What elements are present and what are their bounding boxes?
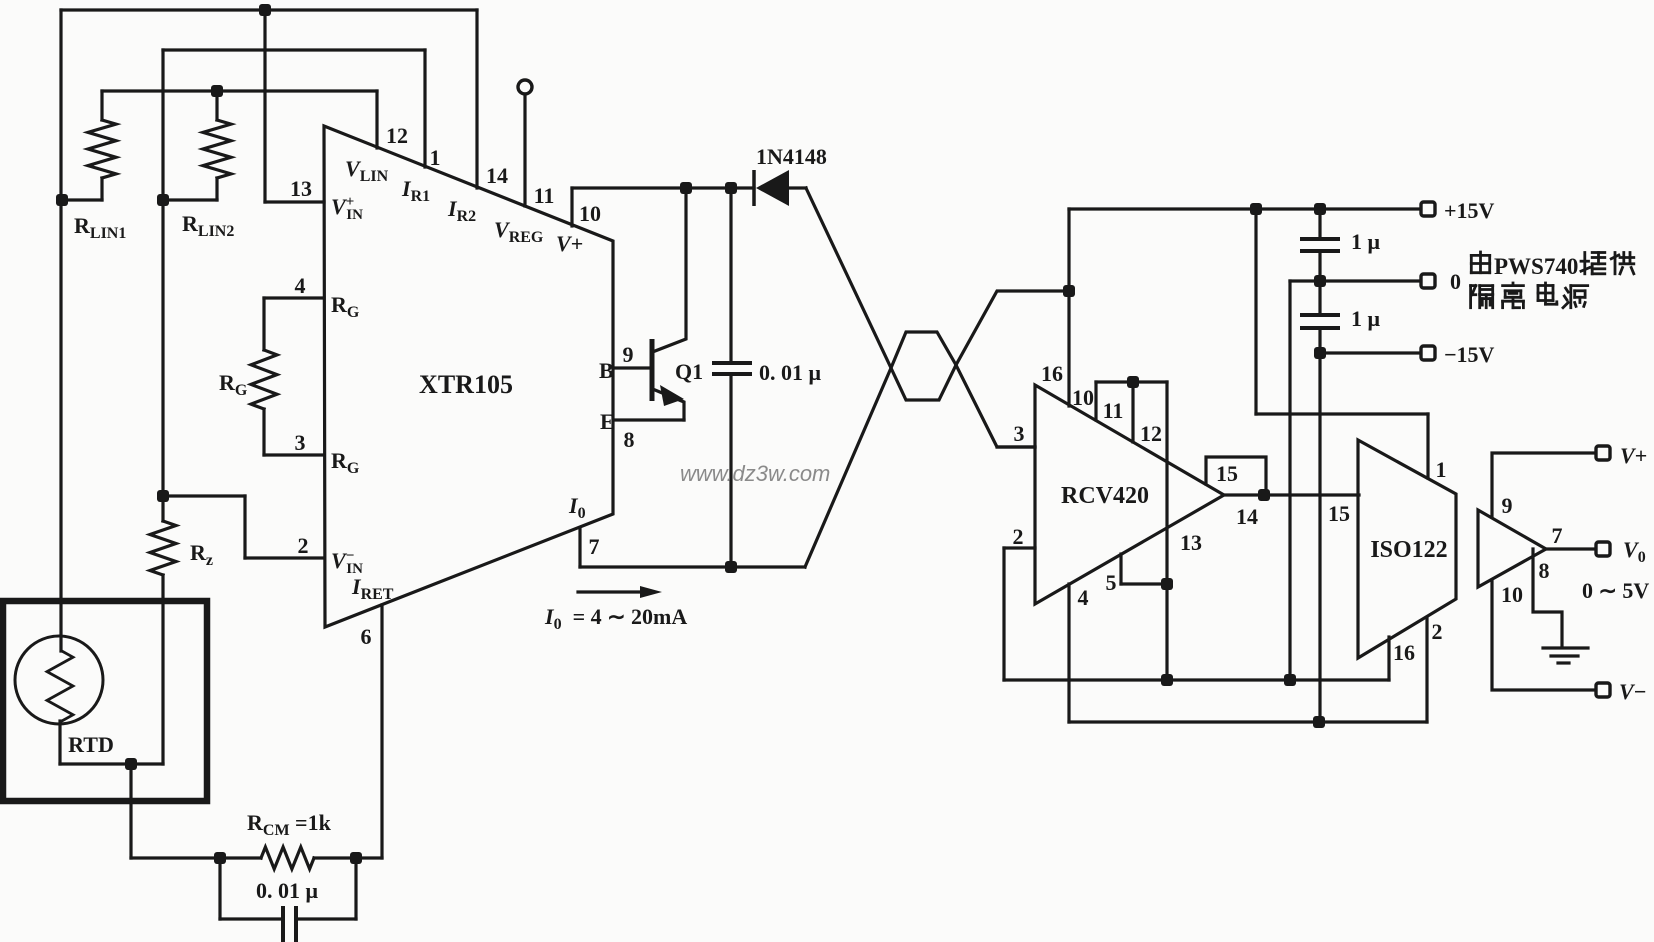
svg-text:RCM =1k: RCM =1k [247,810,332,839]
svg-text:0 ∼ 5V: 0 ∼ 5V [1582,578,1649,603]
svg-text:16: 16 [1393,640,1415,665]
svg-text:V+: V+ [556,231,583,256]
svg-text:10: 10 [579,201,601,226]
svg-text:1N4148: 1N4148 [756,144,827,169]
svg-text:15: 15 [1216,461,1238,486]
svg-text:14: 14 [1236,504,1258,529]
svg-text:12: 12 [386,123,408,148]
svg-text:11: 11 [534,183,555,208]
svg-text:B: B [599,358,614,383]
svg-text:6: 6 [361,624,372,649]
svg-text:13: 13 [290,176,312,201]
svg-text:7: 7 [589,534,600,559]
svg-text:7: 7 [1552,523,1563,548]
svg-text:V+: V+ [1620,443,1647,468]
svg-text:1: 1 [430,145,441,170]
svg-text:V−: V− [1619,679,1646,704]
svg-text:9: 9 [623,342,634,367]
svg-text:−15V: −15V [1444,342,1495,367]
svg-text:1: 1 [1436,457,1447,482]
svg-text:ISO122: ISO122 [1370,537,1447,563]
svg-text:10: 10 [1501,582,1523,607]
svg-text:PWS740: PWS740 [1494,254,1578,279]
svg-text:2: 2 [298,533,309,558]
svg-text:XTR105: XTR105 [419,370,513,399]
svg-text:RCV420: RCV420 [1061,483,1149,509]
svg-text:13: 13 [1180,530,1202,555]
svg-text:www.dz3w.com: www.dz3w.com [680,461,830,486]
svg-text:11: 11 [1103,398,1124,423]
svg-text:0. 01 μ: 0. 01 μ [759,360,822,385]
svg-text:Rz: Rz [190,540,219,569]
svg-text:10: 10 [1072,385,1094,410]
svg-text:2: 2 [1013,524,1024,549]
svg-text:2: 2 [1432,619,1443,644]
svg-text:8: 8 [1539,558,1550,583]
svg-text:E: E [600,409,615,434]
svg-text:1 μ: 1 μ [1351,229,1381,254]
svg-text:16: 16 [1041,361,1063,386]
svg-text:V0: V0 [1623,537,1651,566]
svg-text:RTD: RTD [68,732,114,757]
svg-text:9: 9 [1502,493,1513,518]
svg-text:12: 12 [1140,421,1162,446]
svg-text:15: 15 [1328,501,1350,526]
svg-text:0. 01 μ: 0. 01 μ [256,878,319,903]
svg-text:4: 4 [295,273,306,298]
svg-text:14: 14 [486,163,508,188]
svg-text:1 μ: 1 μ [1351,306,1381,331]
svg-text:5: 5 [1106,570,1117,595]
svg-text:Q1: Q1 [675,359,703,384]
svg-text:8: 8 [624,427,635,452]
svg-text:4: 4 [1078,585,1089,610]
svg-text:+15V: +15V [1444,198,1495,223]
svg-text:I0 = 4 ∼ 20mA: I0 = 4 ∼ 20mA [544,604,687,633]
svg-text:3: 3 [1014,421,1025,446]
svg-text:3: 3 [295,430,306,455]
svg-text:0: 0 [1450,269,1461,294]
